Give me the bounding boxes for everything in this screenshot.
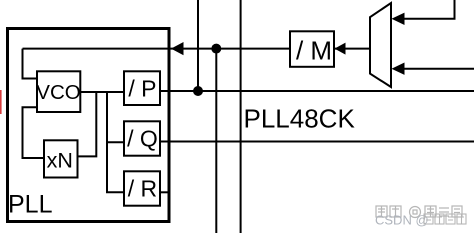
/M divider box bbox=[290, 31, 334, 67]
VCO box U1 bbox=[37, 71, 80, 112]
arrowhead into /M box bbox=[335, 43, 346, 55]
/R divider box bbox=[124, 171, 160, 205]
svg-text:PLL48CK: PLL48CK bbox=[244, 104, 356, 134]
wire: stub to /Q input bbox=[107, 141, 124, 143]
wire: vertical line B from PLLSRC wire down to bottom edge bbox=[215, 49, 217, 233]
wire: vertical line A from top edge down to PLLP line bbox=[197, 0, 199, 91]
wire: /Q output long line PLL48CK to right edge bbox=[159, 141, 474, 143]
mux trapezoid (clock source selector) bbox=[370, 3, 391, 87]
wire: branch from VCO output down to /Q and /R inputs bbox=[107, 92, 124, 192]
svg-text:xN: xN bbox=[47, 149, 73, 173]
/Q divider box bbox=[124, 121, 160, 155]
wire: /P output long line PLLP to right edge bbox=[159, 90, 474, 92]
arrowhead into PLL block bbox=[171, 42, 184, 55]
svg-text:/ R: / R bbox=[128, 176, 157, 202]
svg-text:/ P: / P bbox=[128, 75, 156, 101]
svg-text:VCO: VCO bbox=[36, 81, 80, 104]
watermark 知乎 @顾二迷 (drawn as faint glyph blocks) bbox=[376, 206, 462, 218]
wire: vertical line C from top edge to bottom edge bbox=[240, 0, 242, 233]
xN box (feedback divider) bbox=[44, 140, 78, 177]
junction dot on PLLP line at line A bbox=[193, 86, 203, 96]
wire: VCO output to /P input bbox=[80, 91, 124, 93]
wire: mux top input from top edge bbox=[403, 0, 455, 19]
PLL block outer box bbox=[8, 29, 170, 222]
svg-text:/ Q: / Q bbox=[127, 126, 158, 152]
wire: PLLSRC input from /M into PLL block bbox=[23, 48, 371, 50]
red watermark sliver at left edge bbox=[0, 90, 2, 114]
wire: mux bottom input from right edge bbox=[403, 68, 474, 70]
svg-text:PLL: PLL bbox=[8, 191, 53, 219]
watermark CSDN @溪午画境 bbox=[375, 213, 429, 228]
/P divider box bbox=[124, 71, 160, 105]
arrowhead mux top input bbox=[392, 13, 405, 25]
junction dot on PLLSRC wire at line B bbox=[211, 44, 221, 54]
svg-text:CSDN @: CSDN @ bbox=[375, 213, 429, 228]
wire: drop from input wire down to VCO upper-left pin bbox=[23, 49, 38, 79]
wire: feedback xN left to VCO lower-left pin bbox=[23, 107, 45, 158]
svg-text:/ M: / M bbox=[296, 35, 332, 65]
wire: /R output stub to PLL border bbox=[159, 191, 169, 193]
arrowhead mux bottom input bbox=[392, 63, 405, 75]
wire: branch from VCO output down to xN right side bbox=[76, 92, 96, 156]
